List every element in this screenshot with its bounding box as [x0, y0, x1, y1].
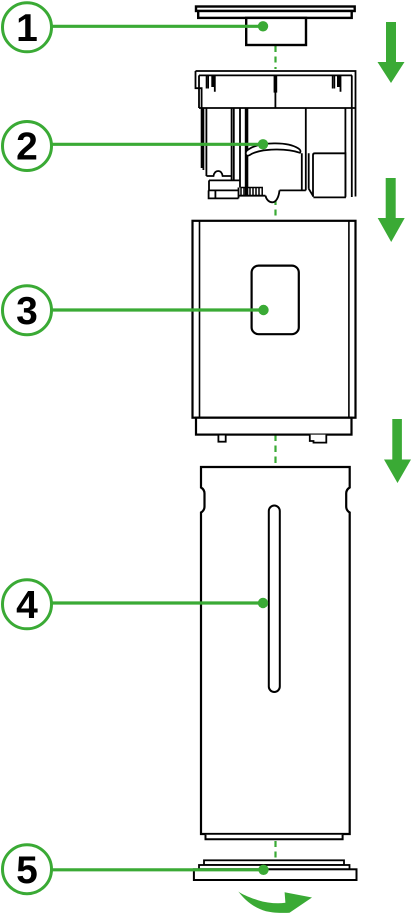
centerline dashes gap 3-4 — [274, 435, 276, 467]
leader line 3 — [51, 308, 264, 311]
part 3 housing box — [193, 221, 356, 418]
part 2 pump head silhouette — [196, 71, 356, 202]
part 5 base layer bottom — [194, 869, 357, 880]
part 3 right foot — [310, 435, 327, 443]
part 3 left foot — [218, 435, 225, 442]
callout circle 5 — [3, 845, 52, 894]
part 2 hatch box — [241, 188, 262, 196]
part 3 bottom band — [196, 418, 352, 435]
centerline dashes gap 4-5 — [274, 841, 276, 860]
part 1 plug block — [246, 18, 306, 45]
callout circle 2 — [3, 122, 52, 171]
part 4 canister body — [201, 467, 350, 834]
down arrow 3 — [384, 419, 411, 483]
callout circle 4 — [3, 580, 52, 629]
leader dot 3 — [258, 305, 268, 315]
centerline dashes gap 1-2 — [274, 46, 276, 69]
down arrow 1 — [378, 22, 405, 83]
leader line 1 — [51, 25, 263, 28]
part 1 lid top plate — [196, 7, 355, 46]
callout circle 1 — [3, 3, 52, 52]
part 4 bottom rim — [206, 835, 343, 840]
part 2 center clip — [274, 75, 278, 92]
centerline dashes gap 2-3 — [274, 199, 276, 220]
leader dot 5 — [258, 865, 268, 875]
svg-text:2: 2 — [16, 126, 38, 169]
svg-text:5: 5 — [16, 849, 38, 892]
part 4 slot — [269, 506, 280, 693]
leader dot 2 — [258, 139, 268, 149]
part 2 outline strokes — [196, 71, 356, 202]
leader line 4 — [51, 601, 263, 604]
leader line 5 — [51, 868, 264, 871]
leader line 2 — [51, 143, 263, 146]
part 2 left clip — [207, 75, 209, 88]
rotation arrow — [238, 892, 312, 913]
part 3 inner edge lines — [200, 221, 349, 418]
callout circle 3 — [3, 286, 52, 335]
part 5 base layer mid — [199, 865, 350, 869]
svg-text:1: 1 — [16, 7, 38, 50]
part 2 right clip — [333, 75, 335, 88]
svg-text:3: 3 — [16, 290, 38, 333]
leader dot 1 — [258, 21, 268, 31]
down arrow 2 — [378, 178, 405, 242]
leader dot 4 — [258, 598, 268, 608]
part 3 button window — [252, 266, 299, 335]
part 2 handle arch strip — [246, 143, 301, 155]
part 2 right block — [313, 153, 345, 196]
svg-text:4: 4 — [16, 584, 38, 627]
part 5 base layer top — [204, 860, 344, 865]
